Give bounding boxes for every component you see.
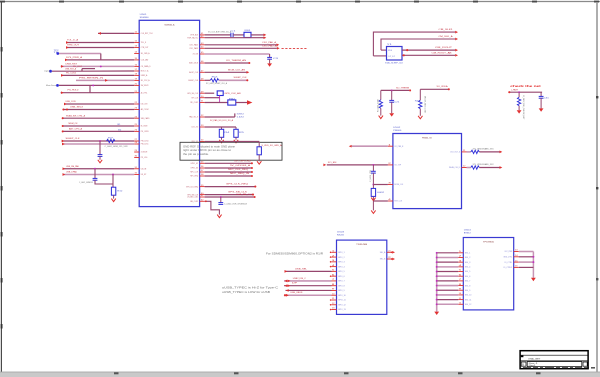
wire bus branch 9 bbox=[437, 289, 459, 291]
wire net MOD_T bbox=[52, 70, 82, 72]
svg-text:SIG_4: SIG_4 bbox=[465, 267, 471, 269]
stem R505 gnd bbox=[235, 137, 237, 140]
svg-text:GPIO_2: GPIO_2 bbox=[338, 257, 345, 259]
wire net USB_SEL bbox=[285, 270, 332, 272]
sheet border right bbox=[596, 2, 598, 372]
IC U503 left pin 8 bbox=[332, 285, 337, 287]
svg-text:XO_THERM: XO_THERM bbox=[396, 87, 409, 89]
svg-text:SW_DRVR: SW_DRVR bbox=[141, 85, 149, 87]
svg-text:DS_CON: DS_CON bbox=[141, 104, 148, 106]
wire net RF_CLK bbox=[205, 97, 220, 99]
svg-text:47: 47 bbox=[201, 71, 204, 73]
svg-text:42: 42 bbox=[201, 36, 204, 38]
IC U501 left pin 29 bbox=[134, 151, 139, 153]
svg-text:MUX: MUX bbox=[337, 235, 345, 237]
svg-text:SLEEP_CLK: SLEEP_CLK bbox=[188, 80, 198, 82]
wire net 5V_GPIO63_A bbox=[205, 167, 252, 169]
svg-text:1: 1 bbox=[459, 251, 462, 253]
svg-text:GPS_CLK_AN: GPS_CLK_AN bbox=[225, 92, 242, 95]
arrow marker SD_CDC_A bbox=[105, 79, 108, 82]
IC U503 left pin 10 bbox=[332, 294, 337, 296]
drop C541 bbox=[372, 165, 374, 171]
svg-text:C_0402_GRM155: C_0402_GRM155 bbox=[79, 182, 93, 184]
port arrow PM_CLK0 bbox=[62, 140, 65, 143]
svg-text:41: 41 bbox=[201, 33, 204, 35]
IC U504 left pin 2 bbox=[458, 256, 463, 258]
svg-text:XO_IN: XO_IN bbox=[193, 54, 199, 56]
stem R521 gnd bbox=[380, 108, 382, 115]
stem R522 gnd bbox=[419, 109, 421, 116]
dot2 AR_CVCM bbox=[66, 108, 68, 110]
svg-text:PM_CLK1: PM_CLK1 bbox=[141, 144, 149, 146]
wire bbox=[98, 32, 134, 34]
wire bus branch 8 bbox=[437, 285, 459, 287]
wire bbox=[373, 200, 388, 202]
svg-text:7: 7 bbox=[459, 279, 462, 281]
IC U501 right pin 47 bbox=[200, 71, 205, 73]
bus junction 7 bbox=[436, 280, 438, 282]
svg-text:USB_DM_PAD: USB_DM_PAD bbox=[66, 165, 79, 168]
ferrite bead FB502 bbox=[228, 100, 236, 105]
svg-text:GPS_CLK_REQ: GPS_CLK_REQ bbox=[226, 184, 249, 186]
svg-text:1: 1 bbox=[332, 251, 335, 253]
port arrow CTM_OUT bbox=[66, 46, 69, 49]
wire net VDD_XO bbox=[205, 141, 260, 143]
IC U504 left pin 1 bbox=[458, 252, 463, 254]
sheet bottom gray bar bbox=[0, 372, 600, 377]
IC U504 left pin 4 bbox=[458, 266, 463, 268]
svg-text:16: 16 bbox=[515, 266, 518, 268]
port arrow USB_ID bbox=[286, 289, 289, 292]
svg-text:TPD8S00: TPD8S00 bbox=[483, 242, 495, 244]
svg-text:WLAN_CLK_D: WLAN_CLK_D bbox=[449, 166, 460, 169]
IC U504 right pin 15 bbox=[514, 261, 519, 263]
resistor R507 bbox=[107, 139, 116, 142]
svg-text:GPIO_9: GPIO_9 bbox=[338, 290, 345, 292]
svg-text:GND REF. Dedicated to main GND: GND REF. Dedicated to main GND plane bbox=[183, 145, 236, 148]
svg-text:SD_CMD_A: SD_CMD_A bbox=[141, 52, 150, 55]
ground arrow bus U504 bbox=[434, 312, 439, 315]
svg-text:MCM_CLK_AN: MCM_CLK_AN bbox=[228, 68, 246, 71]
stem C531 gnd bbox=[540, 98, 542, 108]
ground arrow below C521 bbox=[389, 113, 394, 116]
IC U501 right pin 46 bbox=[200, 62, 205, 64]
svg-text:SD_CDC_A: SD_CDC_A bbox=[141, 79, 150, 82]
IC U504 left pin 12 bbox=[458, 303, 463, 305]
net dot CM_ROUT bbox=[406, 49, 408, 51]
stub mark U503 bbox=[330, 261, 332, 263]
IC U501 left pin 20 bbox=[134, 84, 139, 86]
svg-text:SEL_B: SEL_B bbox=[380, 259, 386, 261]
svg-text:TP3: TP3 bbox=[44, 71, 50, 73]
port arrow PM_CLK1 bbox=[62, 143, 65, 146]
wire bbox=[467, 151, 471, 153]
bus junction 2 bbox=[436, 257, 438, 259]
title block mid line bbox=[520, 360, 588, 362]
svg-text:GPIO_5: GPIO_5 bbox=[338, 271, 345, 273]
wire net GPS_SE_CLK bbox=[205, 92, 215, 94]
svg-text:C_0402_GRM_155_X5R: C_0402_GRM_155_X5R bbox=[105, 146, 129, 148]
svg-text:L_PATH: L_PATH bbox=[511, 88, 518, 91]
wire net WTR_BCK bbox=[205, 34, 231, 36]
resistor R522 bbox=[419, 100, 422, 109]
svg-text:IO_CTRL2: IO_CTRL2 bbox=[503, 267, 513, 269]
wire into xtal pin2 bbox=[373, 55, 386, 57]
svg-text:XO_EN: XO_EN bbox=[328, 162, 337, 164]
svg-text:0402: 0402 bbox=[377, 192, 384, 194]
svg-text:CXO_OUT_D: CXO_OUT_D bbox=[450, 152, 460, 154]
svg-text:28: 28 bbox=[135, 142, 138, 144]
svg-text:XTL_WSDGRABS_XXX: XTL_WSDGRABS_XXX bbox=[473, 148, 495, 151]
svg-text:SIG_7: SIG_7 bbox=[465, 281, 471, 283]
svg-text:ANT_CFG_A: ANT_CFG_A bbox=[69, 128, 83, 131]
svg-text:GPS_SE_CLK: GPS_SE_CLK bbox=[187, 93, 199, 95]
capacitor C504 bbox=[218, 202, 223, 204]
junction right 14 bbox=[532, 256, 534, 258]
wire cap drop US_DM bbox=[94, 169, 96, 179]
test point bbox=[56, 52, 59, 55]
wire net XO_TXP bbox=[327, 164, 388, 166]
offpage arrow CM_ROUT bbox=[455, 49, 458, 52]
svg-text:TDL_D: TDL_D bbox=[141, 42, 147, 44]
svg-text:BB_CLK2: BB_CLK2 bbox=[190, 201, 198, 203]
offpage arrow ALSP_CLK bbox=[247, 71, 250, 74]
IC U501 main SoC body bbox=[139, 20, 199, 206]
wire net USB2_A bbox=[61, 74, 134, 76]
wire net ASIC_BCK bbox=[205, 62, 249, 64]
wire vertical jog bbox=[81, 69, 83, 72]
wire C501 to FB501 bbox=[233, 34, 244, 36]
wire net US_DP bbox=[63, 174, 135, 176]
wire net CD_DATA_D bbox=[61, 65, 135, 67]
red mark BB_CLK2 bbox=[205, 200, 207, 202]
dot AR_CVCM bbox=[62, 108, 64, 110]
svg-text:20: 20 bbox=[135, 84, 138, 86]
wire net BB_CLK2 path bbox=[205, 201, 220, 214]
wire net USB_DP_C bbox=[284, 285, 332, 287]
wire XO_IN drop bbox=[269, 54, 271, 57]
resistor R521 bbox=[379, 100, 382, 109]
wire bbox=[467, 167, 471, 169]
junction bbox=[220, 196, 222, 198]
drop C531 bbox=[540, 92, 542, 96]
vertical tie U504 right bbox=[532, 252, 534, 278]
IC U501 left pin 11 bbox=[134, 32, 139, 34]
IC U501 left pin 18 bbox=[134, 74, 139, 76]
svg-text:B2: B2 bbox=[118, 130, 121, 132]
svg-text:ALSP_CLK: ALSP_CLK bbox=[189, 71, 198, 74]
wire right 16 bbox=[519, 266, 534, 268]
title block rev box bbox=[583, 362, 587, 366]
IC U501 left pin 27 bbox=[134, 140, 139, 142]
svg-text:11: 11 bbox=[332, 298, 335, 300]
drop R521 bbox=[380, 90, 382, 99]
sheet border top bbox=[0, 1, 600, 3]
svg-text:PS_HOLD: PS_HOLD bbox=[68, 90, 80, 92]
drop R531 bbox=[518, 92, 520, 97]
svg-text:GPIO_8: GPIO_8 bbox=[338, 285, 345, 287]
IC U502 right pin 12 bbox=[462, 167, 467, 169]
IC U501 right pin 54 bbox=[200, 141, 205, 143]
junction bbox=[372, 164, 374, 166]
svg-text:59: 59 bbox=[201, 185, 204, 187]
svg-text:C21: C21 bbox=[394, 102, 399, 104]
svg-text:For SDM630/SDM660,OPTION2 is R: For SDM630/SDM660,OPTION2 is R1/R bbox=[266, 252, 323, 256]
port arrow TDL_D bbox=[66, 41, 69, 44]
drop R522 bbox=[419, 89, 421, 100]
wire net SD_CMD_A bbox=[59, 53, 101, 55]
svg-text:IO_CTRL: IO_CTRL bbox=[505, 262, 514, 264]
wire bbox=[402, 49, 455, 51]
svg-text:PU_CLK2: PU_CLK2 bbox=[66, 72, 77, 74]
wire bus branch 2 bbox=[437, 256, 459, 258]
wire bus branch 4 bbox=[437, 266, 459, 268]
sheet border left ticks bbox=[1, 47, 3, 52]
svg-text:USB_SELX: USB_SELX bbox=[70, 107, 84, 109]
svg-text:50: 50 bbox=[201, 96, 204, 98]
IC U501 right pin 62 bbox=[200, 200, 205, 202]
bus junction 12 bbox=[436, 303, 438, 305]
svg-text:7: 7 bbox=[332, 279, 335, 281]
svg-text:9: 9 bbox=[332, 289, 335, 291]
svg-text:XTAL_NET: XTAL_NET bbox=[528, 357, 541, 360]
ferrite bead FB501 bbox=[244, 32, 251, 37]
IC U503 left pin 2 bbox=[332, 256, 337, 258]
svg-text:US_DP: US_DP bbox=[141, 174, 147, 176]
capacitor C509 bbox=[98, 154, 103, 156]
svg-text:SIG_6: SIG_6 bbox=[465, 276, 471, 278]
continue down to R541 bbox=[372, 185, 374, 189]
svg-text:26: 26 bbox=[135, 130, 138, 132]
net dot GPS_SB_CLK bbox=[252, 194, 254, 196]
wire right 14 bbox=[519, 256, 534, 258]
stem C503 to power bbox=[269, 59, 271, 63]
IC U503 right pin 22 bbox=[387, 258, 392, 260]
svg-text:RC_0402_SLEEP_CLK_A: RC_0402_SLEEP_CLK_A bbox=[206, 82, 228, 85]
net dot NFC_CLK_REQ bbox=[251, 171, 253, 173]
svg-text:TSIF_SA_VC: TSIF_SA_VC bbox=[187, 36, 198, 39]
svg-text:SIG_10: SIG_10 bbox=[465, 295, 472, 297]
svg-text:62: 62 bbox=[201, 200, 204, 202]
svg-text:MDM_CK: MDM_CK bbox=[69, 123, 79, 125]
resistor R502 bbox=[210, 79, 219, 82]
svg-text:TS3USB: TS3USB bbox=[356, 244, 368, 246]
svg-text:XO_VDDA: XO_VDDA bbox=[437, 85, 449, 88]
port arrow CD_DATA_D bbox=[61, 65, 64, 68]
title block corner mark bbox=[521, 356, 524, 358]
wire net SD_CDC_A bbox=[76, 79, 134, 81]
svg-text:NFC_CLK: NFC_CLK bbox=[190, 172, 198, 174]
svg-text:CM_SLK1: CM_SLK1 bbox=[439, 29, 454, 31]
resistor R506 bbox=[257, 147, 261, 155]
wire bus branch 7 bbox=[437, 280, 459, 282]
resistor R510 bbox=[111, 187, 115, 195]
stem C541 down bbox=[372, 173, 374, 184]
offpage arrow TSIF_SA_VC bbox=[264, 36, 267, 39]
resistor R531 bbox=[517, 97, 520, 106]
svg-text:R_0402_DNI_CHECK_NET: R_0402_DNI_CHECK_NET bbox=[522, 96, 524, 120]
port arrow A_CTRL bbox=[61, 91, 64, 94]
wire net LN_BB_CLK1 bbox=[205, 196, 254, 198]
svg-text:GPIO_12: GPIO_12 bbox=[338, 304, 347, 306]
net dot 5V_GPIO63_A bbox=[251, 167, 253, 169]
wire net PAD_SO_V bbox=[205, 116, 235, 118]
wire net PU_CKIN bbox=[63, 130, 135, 132]
port arrow USB_SEL bbox=[285, 270, 288, 273]
wire R544 to port bbox=[479, 167, 499, 169]
net dot SLEEP_CLK bbox=[246, 79, 248, 81]
svg-text:FB2: FB2 bbox=[229, 99, 235, 101]
IC U501 right pin 44 bbox=[200, 47, 205, 49]
svg-text:ASIC_BCK: ASIC_BCK bbox=[189, 62, 198, 65]
svg-text:VCC_PWR: VCC_PWR bbox=[505, 251, 513, 253]
capacitor C531 bbox=[539, 95, 544, 97]
IC U501 right pin 45 bbox=[200, 53, 205, 55]
wire net NFC_CLK_REQ bbox=[205, 171, 252, 173]
title block top strip line bbox=[520, 354, 588, 356]
svg-text:52: 52 bbox=[201, 115, 204, 117]
svg-text:CXO_PAD1: CXO_PAD1 bbox=[189, 44, 199, 47]
svg-text:3: 3 bbox=[459, 260, 462, 262]
wire bus branch 1 bbox=[437, 252, 459, 254]
svg-text:WTR_BCK: WTR_BCK bbox=[190, 35, 198, 37]
IC U503 left pin 13 bbox=[332, 309, 337, 311]
bus junction 3 bbox=[436, 261, 438, 263]
wire net SW_DRVR bbox=[59, 84, 134, 86]
stub arrow SEL_B bbox=[392, 258, 395, 261]
port arrow USB2_A bbox=[61, 74, 64, 77]
svg-text:TRM_OUT: TRM_OUT bbox=[67, 45, 80, 47]
title block size box bbox=[521, 362, 526, 366]
wire net XTAL_OUT2 bbox=[381, 39, 455, 50]
IC U504 right pin 13 bbox=[514, 251, 519, 253]
svg-text:51: 51 bbox=[201, 101, 204, 103]
svg-text:Y1: Y1 bbox=[387, 44, 392, 46]
svg-text:uUSB_TYPEC is LOW for uUSB: uUSB_TYPEC is LOW for uUSB bbox=[222, 290, 270, 294]
ground below IC2 chain bbox=[371, 210, 375, 213]
net dot GPS_CLK_REQ bbox=[254, 186, 256, 188]
IC U503 left pin 1 bbox=[332, 251, 337, 253]
ground arrow below C503 bbox=[267, 63, 272, 66]
svg-text:SLEEP_CLK: SLEEP_CLK bbox=[234, 77, 248, 79]
ground below R510 bbox=[111, 199, 115, 202]
IC U502 left pin 4 bbox=[388, 200, 393, 202]
net dot CM_ROUT2 bbox=[403, 54, 405, 56]
wire right 13 bbox=[519, 251, 534, 253]
ground BB_CLK2 bbox=[217, 215, 221, 218]
IC U501 left pin 22 bbox=[134, 103, 139, 105]
svg-text:USB_DPAD: USB_DPAD bbox=[66, 171, 77, 174]
net dot 5V_GPIO62 bbox=[251, 162, 253, 164]
IC U501 left pin 19 bbox=[134, 79, 139, 81]
bus vertical U504 left bbox=[436, 253, 438, 312]
svg-text:SEL_A: SEL_A bbox=[380, 251, 386, 254]
svg-text:5: 5 bbox=[459, 270, 462, 272]
svg-text:SIG_1: SIG_1 bbox=[465, 253, 471, 255]
capacitor C521 bbox=[389, 99, 394, 101]
wire net CXO_PAD1 bbox=[205, 44, 277, 46]
svg-text:LNA_BB_CLK: LNA_BB_CLK bbox=[236, 193, 254, 196]
wire net USB_DM_C bbox=[284, 280, 332, 282]
port arrow USB_DP_C l bbox=[284, 284, 287, 287]
junction bbox=[99, 140, 101, 142]
svg-text:32: 32 bbox=[135, 173, 138, 175]
svg-text:31: 31 bbox=[135, 167, 138, 169]
svg-text:SIM_CARD: SIM_CARD bbox=[141, 117, 150, 120]
wire bbox=[402, 54, 455, 56]
net dot LN_BB_CLK1 bbox=[254, 196, 256, 198]
IC U503 left pin 4 bbox=[332, 266, 337, 268]
ground arrow U504 right bbox=[531, 278, 536, 281]
IC U504 left pin 8 bbox=[458, 285, 463, 287]
capacitor C503 bbox=[267, 56, 272, 58]
svg-text:10: 10 bbox=[459, 293, 462, 295]
IC U501 right pin 58 bbox=[200, 175, 205, 177]
svg-text:5V_GPIO63_A: 5V_GPIO63_A bbox=[230, 164, 251, 167]
svg-text:10: 10 bbox=[332, 293, 335, 295]
IC U503 left pin 11 bbox=[332, 299, 337, 301]
svg-text:SIG_3: SIG_3 bbox=[465, 262, 471, 264]
port arrow USB_DP_C r bbox=[288, 284, 291, 287]
svg-text:CTM_OUT: CTM_OUT bbox=[141, 47, 149, 49]
svg-text:11: 11 bbox=[459, 298, 462, 300]
svg-text:XO_TXP: XO_TXP bbox=[394, 165, 401, 167]
svg-text:30: 30 bbox=[135, 156, 138, 158]
svg-text:27: 27 bbox=[135, 139, 138, 141]
wire right 15 bbox=[519, 261, 534, 263]
svg-text:SIG_11: SIG_11 bbox=[465, 299, 472, 301]
wire net GPS_CLK_REQ bbox=[205, 186, 255, 188]
offpage arrow RF_CLK2 large bbox=[247, 100, 252, 105]
svg-text:5V0: 5V0 bbox=[237, 114, 244, 116]
wire net XO_IN bbox=[205, 53, 270, 55]
svg-text:NFC_REQ_IN: NFC_REQ_IN bbox=[230, 173, 250, 175]
svg-text:GPIO_1: GPIO_1 bbox=[338, 252, 345, 254]
stub arrow SEL_A bbox=[392, 251, 395, 254]
svg-text:SIG_2: SIG_2 bbox=[465, 257, 471, 259]
svg-text:XO_PBS_N: XO_PBS_N bbox=[394, 146, 403, 148]
annotation box GND REF bbox=[180, 142, 282, 160]
stem C521 gnd bbox=[391, 102, 393, 113]
svg-text:6: 6 bbox=[459, 274, 462, 276]
svg-text:NFC_CLK_REQ: NFC_CLK_REQ bbox=[228, 169, 248, 171]
svg-text:58: 58 bbox=[201, 174, 204, 176]
IC U501 right pin 57 bbox=[200, 171, 205, 173]
dot PU_CKIN bbox=[62, 130, 64, 132]
svg-text:PU_RST: PU_RST bbox=[73, 66, 83, 68]
svg-text:45: 45 bbox=[201, 52, 204, 54]
svg-text:CM_ROUT_AB: CM_ROUT_AB bbox=[432, 51, 453, 54]
wire net SLEEP_CLK bbox=[205, 79, 211, 81]
svg-text:CLK_RST_TDO: CLK_RST_TDO bbox=[141, 33, 153, 35]
IC U501 right pin 59 bbox=[200, 186, 205, 188]
continue down to gnd bbox=[372, 201, 374, 210]
svg-text:PX_LD0: PX_LD0 bbox=[141, 157, 148, 159]
svg-text:56: 56 bbox=[201, 166, 204, 168]
wire bbox=[381, 89, 410, 91]
wire bus branch 5 bbox=[437, 271, 459, 273]
test point bbox=[56, 84, 59, 87]
svg-text:61: 61 bbox=[201, 195, 204, 197]
svg-text:9: 9 bbox=[459, 288, 462, 290]
IC U501 left pin 13 bbox=[134, 47, 139, 49]
IC U502 right pin 11 bbox=[462, 151, 467, 153]
offpage arrow CXO_OUT bbox=[500, 151, 503, 154]
IC U503 body bbox=[337, 240, 387, 314]
wire net AR_CVCM bbox=[63, 109, 134, 111]
svg-text:SIG_9: SIG_9 bbox=[465, 290, 471, 292]
svg-text:57: 57 bbox=[201, 170, 204, 172]
